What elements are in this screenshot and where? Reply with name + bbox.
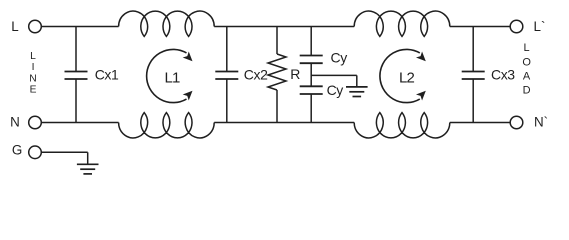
svg-text:R: R: [290, 66, 300, 82]
inductor L1 bottom winding: [119, 113, 215, 138]
wire bottom rail right: [450, 122, 510, 124]
capacitor Cy (bottom): [300, 86, 323, 94]
wire Cy midpoint tap: [311, 74, 357, 76]
svg-text:N: N: [10, 115, 20, 130]
G terminal: [29, 146, 42, 159]
N' terminal: [510, 116, 523, 129]
capacitor Cy (top): [300, 56, 323, 64]
svg-text:Cy: Cy: [331, 50, 348, 66]
capacitor Cx1: [65, 72, 88, 80]
capacitor Cx3: [462, 72, 485, 80]
wire ground drop: [87, 152, 89, 164]
ground (earth) symbol: [77, 164, 99, 174]
inductor L2 top winding: [354, 11, 450, 36]
capacitor Cx2: [215, 72, 238, 80]
wire bottom rail left: [41, 122, 118, 124]
L1 circular arrow: [147, 49, 193, 102]
svg-text:G: G: [12, 143, 22, 158]
wire tap drop: [356, 75, 358, 87]
resistor R: [268, 54, 286, 90]
wire top rail left: [41, 26, 118, 28]
svg-text:A: A: [523, 71, 531, 83]
svg-text:N: N: [29, 73, 36, 84]
wire bottom rail middle: [214, 122, 354, 124]
wire Cx1 lower lead: [75, 79, 77, 123]
svg-text:L2: L2: [399, 70, 415, 87]
inductor L2 bottom winding: [354, 113, 450, 138]
svg-text:L1: L1: [164, 70, 180, 87]
wire R upper lead: [276, 27, 278, 55]
wire Cx2 lower lead: [226, 79, 228, 123]
L terminal: [29, 20, 42, 33]
wire Cy lower lead: [310, 94, 312, 123]
svg-text:D: D: [523, 85, 531, 97]
svg-text:N`: N`: [534, 114, 548, 129]
svg-text:L: L: [30, 51, 36, 62]
svg-text:I: I: [32, 62, 35, 73]
wire Cy middle link: [310, 63, 312, 86]
svg-text:Cy: Cy: [327, 82, 344, 98]
wire Cx1 upper lead: [75, 27, 77, 72]
L' terminal: [510, 20, 523, 33]
wire R lower lead: [276, 90, 278, 123]
wire top rail right: [450, 26, 510, 28]
wire G lead: [41, 151, 87, 153]
svg-text:E: E: [30, 85, 37, 96]
wire Cy upper lead: [310, 27, 312, 56]
svg-text:L: L: [11, 19, 18, 34]
svg-text:Cx2: Cx2: [244, 67, 268, 83]
N terminal: [29, 116, 42, 129]
wire Cx3 lower lead: [472, 79, 474, 123]
L2 circular arrow: [380, 49, 426, 102]
wire Cx3 upper lead: [472, 27, 474, 72]
inductor L1 top winding: [119, 11, 215, 36]
svg-text:O: O: [522, 56, 531, 68]
svg-text:L`: L`: [534, 19, 546, 34]
wire top rail middle: [214, 26, 354, 28]
svg-text:L: L: [524, 42, 530, 54]
svg-text:Cx1: Cx1: [95, 67, 119, 83]
wire Cx2 upper lead: [226, 27, 228, 72]
ground (earth) at Cy tap: [346, 87, 368, 97]
svg-text:Cx3: Cx3: [491, 67, 515, 83]
